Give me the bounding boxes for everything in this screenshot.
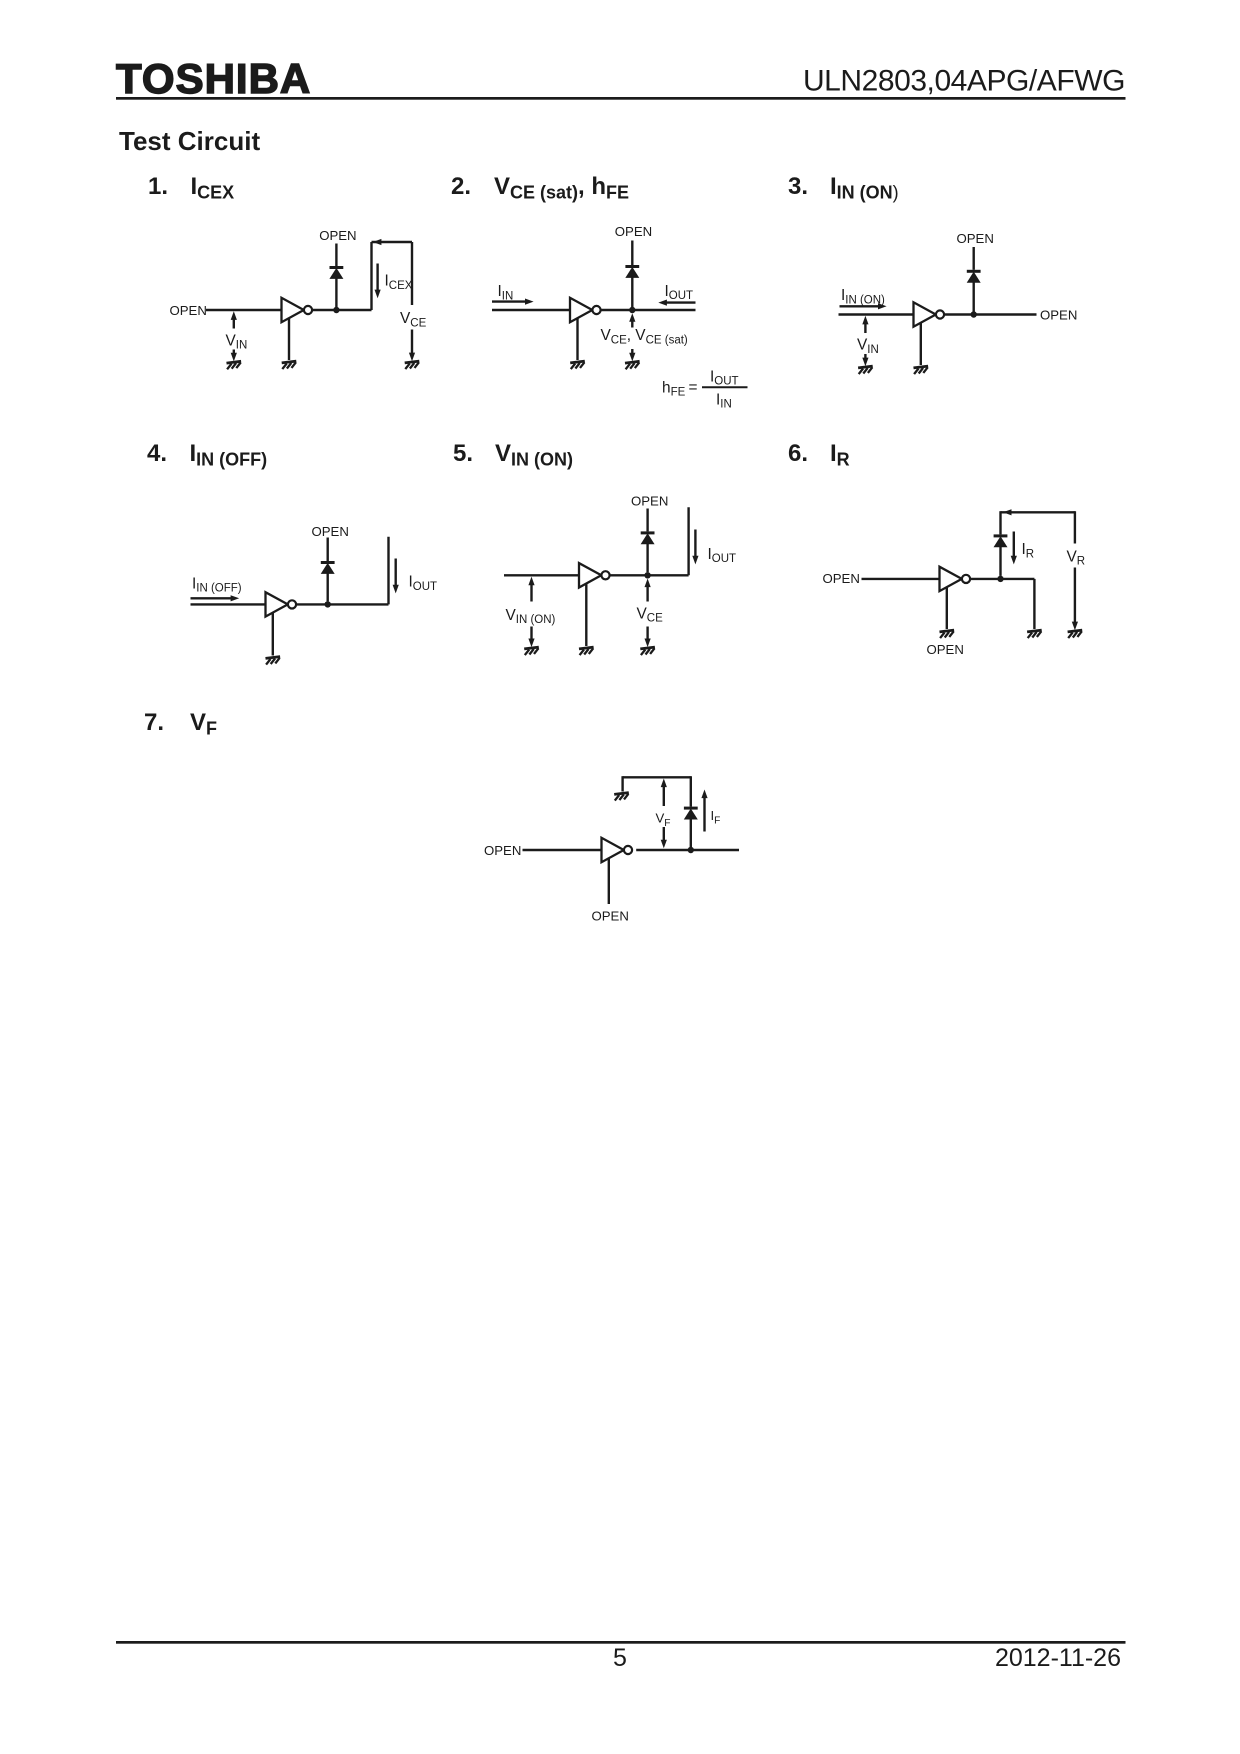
- VIN source arrow down to ground (circuit 1): [233, 350, 235, 356]
- wire: top loop (circuit 6): [1001, 511, 1075, 513]
- svg-text:1.: 1.: [148, 173, 168, 200]
- ground (output branch, circuit 6): [1027, 630, 1042, 638]
- wire: inverter common stem (circuit 1): [288, 318, 290, 360]
- ground (VIN source, circuit 1): [227, 361, 242, 369]
- wire: diode branch (circuit 7): [690, 819, 692, 847]
- wire: diode branch (circuit 1): [335, 278, 337, 307]
- wire: diode to OPEN (circuit 3): [973, 247, 975, 270]
- node: output junction (circuit 2): [629, 307, 635, 313]
- IIN(ON) current direction arrow (circuit 3): [840, 305, 883, 307]
- wire: VCE source top segment (circuit 1): [411, 242, 413, 305]
- IOUT current arrow (circuit 4): [395, 559, 397, 587]
- node: output junction (circuit 3): [971, 311, 977, 317]
- wire: inverter common stem (circuit 5): [585, 584, 587, 646]
- node: output junction (circuit 4): [325, 601, 331, 607]
- ground (VIN source, circuit 5): [524, 647, 539, 655]
- svg-text:OPEN: OPEN: [484, 843, 521, 858]
- svg-text:OPEN: OPEN: [615, 224, 652, 239]
- inverter U1 (circuit 6): [940, 567, 971, 591]
- reverse diode (circuit 6): [994, 534, 1008, 546]
- clamp diode (circuit 1): [330, 266, 344, 278]
- svg-text:7.: 7.: [144, 709, 164, 736]
- wire: input (circuit 5): [504, 574, 579, 576]
- wire: input (circuit 3): [839, 313, 914, 315]
- wire: output node (circuit 3): [944, 313, 1036, 315]
- ground (inverter common, circuit 4): [266, 657, 281, 665]
- wire: output node (circuit 1): [312, 309, 372, 311]
- IOUT current direction arrow (circuit 2): [663, 301, 696, 303]
- wire: junction to ground branch (circuit 6): [1033, 579, 1035, 629]
- wire: input (circuit 2): [492, 309, 570, 311]
- svg-text:4.: 4.: [147, 440, 167, 467]
- wire: output node (circuit 2): [601, 309, 696, 311]
- wire: collector loop up (circuit 1): [370, 242, 372, 310]
- inverter U1 (circuit 7): [602, 838, 633, 862]
- wire: VCE source lower segment with arrow (circuit 1): [411, 330, 413, 354]
- VCE measure arrow down to ground (circuit 2): [631, 349, 633, 355]
- svg-text:OPEN: OPEN: [927, 642, 964, 657]
- svg-text:5: 5: [613, 1644, 627, 1672]
- svg-text:Test Circuit: Test Circuit: [119, 126, 260, 156]
- svg-text:OPEN: OPEN: [957, 231, 994, 246]
- VCE measure arrow up (circuit 2): [629, 313, 635, 322]
- wire: diode to OPEN (circuit 2): [631, 241, 633, 266]
- svg-text:OPEN: OPEN: [592, 908, 629, 923]
- wire: VR source upper segment (circuit 6): [1074, 511, 1076, 543]
- diode under test (circuit 7): [684, 807, 698, 819]
- svg-text:5.: 5.: [453, 440, 473, 467]
- VCE measure arrow down to ground (circuit 5): [646, 627, 648, 640]
- svg-text:OPEN: OPEN: [312, 524, 349, 539]
- wire: top loop to ground (circuit 7): [623, 776, 691, 778]
- wire: diode to top loop (circuit 6): [999, 511, 1001, 534]
- wire: input (circuit 6): [862, 578, 940, 580]
- svg-text:OPEN: OPEN: [170, 303, 207, 318]
- current direction arrow into node (circuit 6): [1003, 509, 1012, 515]
- svg-text:OPEN: OPEN: [319, 228, 356, 243]
- clamp diode (circuit 4): [321, 561, 335, 573]
- IIN(OFF) current direction arrow (circuit 4): [191, 597, 236, 599]
- svg-text:2012-11-26: 2012-11-26: [995, 1644, 1121, 1672]
- wire: output node (circuit 6): [970, 578, 1034, 580]
- wire: inverter common stem (circuit 3): [920, 323, 922, 365]
- ground (VIN source, circuit 3): [858, 366, 873, 374]
- VIN source arrow down to ground (circuit 3): [864, 354, 866, 361]
- svg-text:=: =: [689, 379, 698, 396]
- ground (inverter common, circuit 5): [579, 647, 594, 655]
- IIN current direction arrow (circuit 2): [492, 300, 530, 302]
- wire: diode to OPEN (circuit 5): [646, 509, 648, 532]
- wire: inverter common stem (circuit 4): [272, 613, 274, 656]
- ground (VCE measure, circuit 5): [640, 647, 655, 655]
- IR current arrow (circuit 6): [1013, 532, 1015, 558]
- ground (inverter common, circuit 3): [914, 366, 929, 374]
- IOUT current arrow (circuit 5): [694, 530, 696, 558]
- wire: collector loop top (circuit 1): [372, 241, 413, 243]
- ground (top, circuit 7): [614, 793, 629, 801]
- VIN source arrow up (circuit 3): [862, 316, 868, 325]
- inverter U1 (circuit 2): [570, 298, 601, 322]
- header rule: [116, 97, 1126, 100]
- ground (inverter common, circuit 1): [282, 361, 297, 369]
- ground (inverter common, circuit 6): [940, 630, 955, 638]
- VIN(ON) source arrow up (circuit 5): [528, 577, 534, 586]
- wire: VR source lower segment with arrow (circuit 6): [1074, 568, 1076, 623]
- footer rule: [116, 1641, 1126, 1644]
- svg-text:OPEN: OPEN: [1040, 307, 1077, 322]
- svg-text:3.: 3.: [788, 173, 808, 200]
- ground (VCE source, circuit 1): [405, 361, 420, 369]
- wire: inverter common stem (circuit 7): [608, 858, 610, 904]
- wire: inverter common stem (circuit 6): [946, 587, 948, 629]
- inverter U1 (circuit 5): [579, 563, 610, 587]
- clamp diode (circuit 5): [641, 531, 655, 543]
- svg-text:OPEN: OPEN: [631, 494, 668, 509]
- svg-text:TOSHIBA: TOSHIBA: [116, 55, 311, 102]
- inverter U1 (circuit 3): [914, 302, 945, 326]
- wire: input (circuit 4): [191, 603, 266, 605]
- current direction arrow into node (circuit 1): [373, 239, 382, 245]
- VIN source arrow up (circuit 1): [231, 311, 237, 320]
- clamp diode (circuit 3): [967, 270, 981, 282]
- inverter U1 (circuit 4): [266, 592, 297, 616]
- VIN(ON) source arrow down to ground (circuit 5): [530, 627, 532, 640]
- wire: diode to top (circuit 7): [690, 776, 692, 806]
- VCE measure arrow up (circuit 5): [645, 579, 651, 588]
- wire: diode branch (circuit 4): [327, 573, 329, 601]
- ICEX current arrow (circuit 1): [376, 264, 378, 292]
- wire: IOUT branch up (circuit 4): [387, 537, 389, 605]
- wire: diode branch (circuit 5): [646, 544, 648, 573]
- svg-text:ULN2803,04APG/AFWG: ULN2803,04APG/AFWG: [803, 65, 1125, 98]
- wire: output node (circuit 7): [636, 849, 739, 851]
- ground (VR source, circuit 6): [1068, 630, 1083, 638]
- wire: input (circuit 7): [523, 849, 602, 851]
- wire: input to inverter (circuit 1): [206, 309, 282, 311]
- wire: output node (circuit 4): [296, 603, 388, 605]
- wire: diode to OPEN (circuit 4): [327, 538, 329, 562]
- wire: output node (circuit 5): [610, 574, 689, 576]
- svg-text:2.: 2.: [451, 173, 471, 200]
- inverter U1 (circuit 1): [282, 298, 313, 322]
- node: output junction (circuit 5): [644, 572, 650, 578]
- clamp diode (circuit 2): [625, 265, 639, 277]
- IF current arrow (circuit 7): [701, 790, 707, 799]
- wire: diode branch (circuit 3): [973, 282, 975, 311]
- wire: IOUT branch up (circuit 5): [687, 507, 689, 575]
- wire: diode to OPEN (circuit 1): [335, 244, 337, 267]
- ground (VCE measure, circuit 2): [625, 361, 640, 369]
- VF measure arrow up (circuit 7): [661, 779, 667, 788]
- node: output junction (circuit 1): [333, 307, 339, 313]
- wire: diode branch (circuit 6): [999, 547, 1001, 576]
- svg-text:6.: 6.: [788, 440, 808, 467]
- wire: inverter common stem (circuit 2): [576, 318, 578, 360]
- wire: diode branch (circuit 2): [631, 277, 633, 307]
- node: output junction (circuit 6): [997, 576, 1003, 582]
- VF measure arrow down (circuit 7): [663, 827, 665, 841]
- ground (inverter common, circuit 2): [570, 361, 585, 369]
- node: output junction (circuit 7): [688, 847, 694, 853]
- svg-text:OPEN: OPEN: [823, 571, 860, 586]
